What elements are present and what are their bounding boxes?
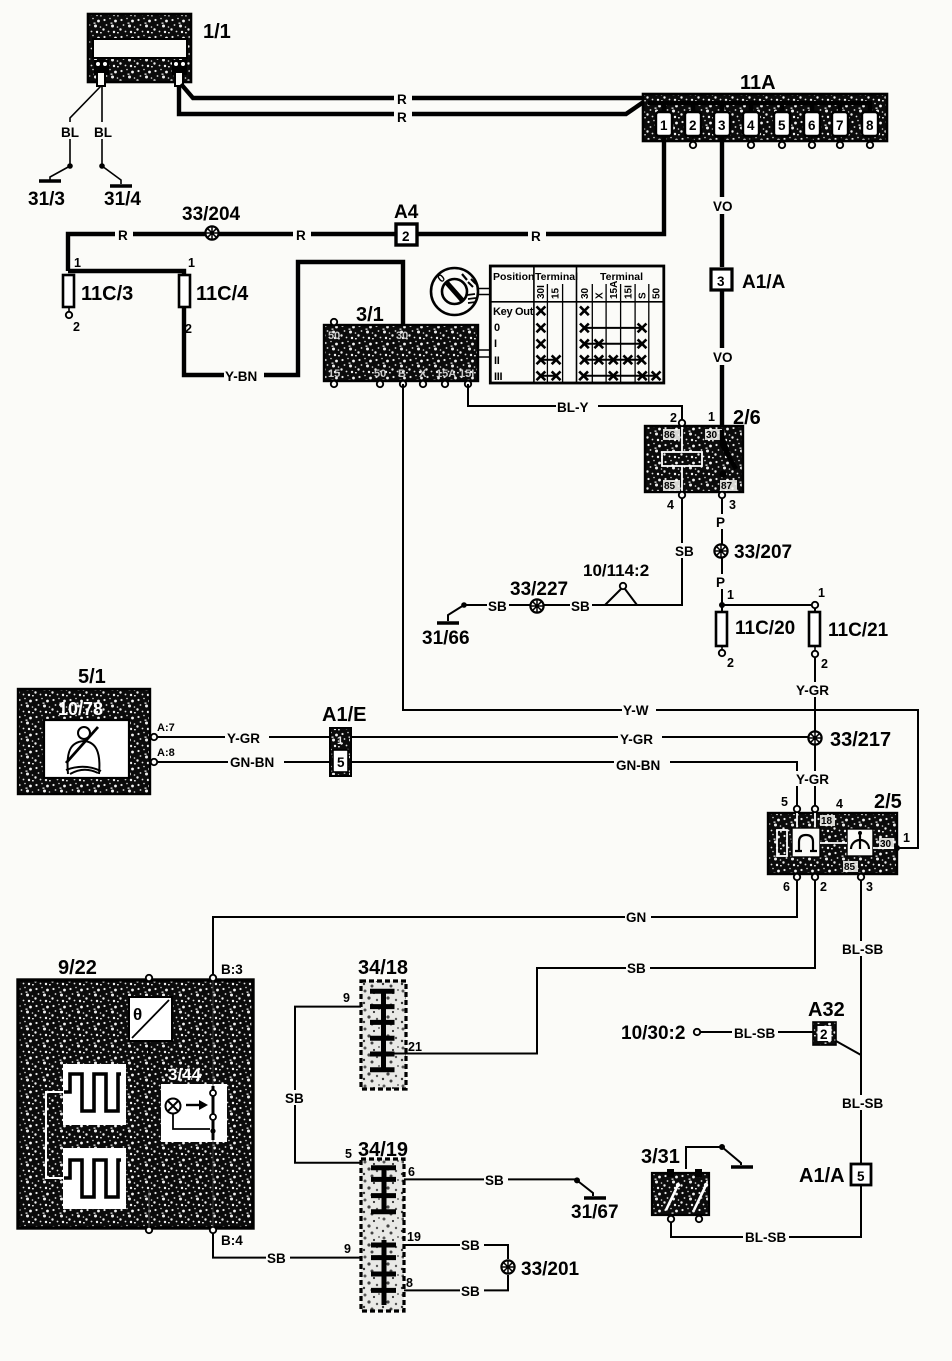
ground 31/4 xyxy=(104,186,141,210)
wire pin 21 xyxy=(394,1040,537,1054)
splice 33/217 xyxy=(808,729,891,751)
svg-text:A1/A: A1/A xyxy=(799,1165,845,1187)
temperature sensor theta xyxy=(129,997,172,1227)
svg-text:Position: Position xyxy=(493,271,534,283)
warning lamp 3/44 xyxy=(161,1065,227,1142)
wire BL left xyxy=(50,86,101,180)
wire P lower xyxy=(715,558,825,608)
wire link heater elements xyxy=(46,1092,64,1178)
svg-text:11C/20: 11C/20 xyxy=(735,618,795,639)
svg-text:3: 3 xyxy=(718,118,726,133)
ground 31/66 xyxy=(422,602,470,649)
fuse 4 xyxy=(743,103,759,148)
svg-text:R: R xyxy=(397,92,407,107)
svg-text:Terminal: Terminal xyxy=(600,271,643,283)
svg-text:3: 3 xyxy=(866,880,873,894)
svg-text:S: S xyxy=(638,292,649,299)
svg-text:SB: SB xyxy=(461,1238,480,1253)
wire BL-SB from 2/5 pin 3 xyxy=(840,880,886,1163)
ground 31/3 xyxy=(28,181,65,210)
key switch symbol xyxy=(431,268,490,315)
svg-text:VO: VO xyxy=(713,199,733,214)
svg-text:3/31: 3/31 xyxy=(641,1146,680,1168)
svg-text:10/114:2: 10/114:2 xyxy=(583,561,649,580)
svg-text:11A: 11A xyxy=(740,72,776,94)
svg-text:P: P xyxy=(716,575,725,590)
heater element upper xyxy=(63,1064,126,1125)
svg-text:BL-SB: BL-SB xyxy=(734,1026,775,1041)
node 10/114:2 xyxy=(583,561,649,605)
svg-text:5: 5 xyxy=(857,1169,865,1184)
svg-text:5/1: 5/1 xyxy=(78,666,106,688)
svg-text:4: 4 xyxy=(667,498,674,512)
svg-text:11C/3: 11C/3 xyxy=(81,283,133,305)
svg-text:1: 1 xyxy=(727,588,734,602)
fuse 6 xyxy=(804,103,820,148)
svg-text:SB: SB xyxy=(488,599,507,614)
svg-text:1/1: 1/1 xyxy=(203,21,231,43)
ground 31/67 xyxy=(571,1198,619,1223)
wire R battery to fusebox (two runs) xyxy=(179,84,646,125)
wire Y-W xyxy=(403,384,918,848)
svg-text:86: 86 xyxy=(664,430,676,441)
svg-text:30: 30 xyxy=(706,430,718,441)
svg-text:1: 1 xyxy=(818,586,825,600)
node 10/30:2 xyxy=(621,1023,813,1044)
wire SB B:4 to 34/19 pin 9 xyxy=(213,1233,361,1266)
wire Y-GR horizontal xyxy=(157,730,810,747)
svg-text:15: 15 xyxy=(551,287,562,299)
wire SB pin 19 to splice xyxy=(404,1230,508,1259)
svg-text:30I: 30I xyxy=(536,285,547,299)
fuse 11C/4 xyxy=(179,275,249,336)
svg-text:1: 1 xyxy=(188,256,195,270)
svg-text:SB: SB xyxy=(675,544,694,559)
svg-text:33/204: 33/204 xyxy=(182,204,241,225)
connector 34/19 xyxy=(358,1139,408,1311)
svg-text:85: 85 xyxy=(844,862,856,873)
relay 2/6 xyxy=(645,407,761,512)
svg-text:GN: GN xyxy=(626,910,646,925)
svg-text:1: 1 xyxy=(660,118,668,133)
svg-text:SB: SB xyxy=(485,1173,504,1188)
wire SB from 2/5 pin 2 xyxy=(404,880,815,1054)
svg-text:0: 0 xyxy=(494,322,500,334)
battery 1/1 xyxy=(88,14,231,86)
control unit 9/22 xyxy=(18,957,253,1248)
svg-text:B: B xyxy=(398,368,406,380)
svg-text:31/3: 31/3 xyxy=(28,189,65,210)
wire SB pin 6 to ground 31/67 xyxy=(404,1165,593,1196)
wire Y-BN xyxy=(184,262,403,384)
svg-text:3: 3 xyxy=(729,498,736,512)
svg-text:15: 15 xyxy=(328,368,340,380)
svg-text:8: 8 xyxy=(406,1276,413,1290)
svg-text:A:7: A:7 xyxy=(157,722,175,734)
svg-text:2: 2 xyxy=(820,1027,828,1042)
wire BL-SB to 3/31 xyxy=(671,1185,861,1245)
svg-text:A1/E: A1/E xyxy=(322,704,366,726)
svg-text:6: 6 xyxy=(808,118,816,133)
svg-text:III: III xyxy=(494,371,503,383)
svg-text:GN-BN: GN-BN xyxy=(616,758,660,773)
wire VO to 2/6 xyxy=(712,290,739,430)
svg-text:31/67: 31/67 xyxy=(571,1202,619,1223)
svg-text:87: 87 xyxy=(721,481,733,492)
fuse 5 xyxy=(774,103,790,148)
svg-text:Y-W: Y-W xyxy=(623,703,649,718)
svg-text:BL: BL xyxy=(61,125,79,140)
svg-text:2: 2 xyxy=(727,656,734,670)
svg-text:2: 2 xyxy=(689,118,697,133)
wire GN-BN horizontal xyxy=(157,754,797,806)
svg-text:SB: SB xyxy=(461,1284,480,1299)
switch wire to ground xyxy=(686,1144,753,1169)
wire Y-GR to 2/5 xyxy=(794,745,838,806)
svg-text:1: 1 xyxy=(903,831,910,845)
svg-text:Y-GR: Y-GR xyxy=(620,732,653,747)
svg-text:33/227: 33/227 xyxy=(510,579,568,600)
svg-text:9: 9 xyxy=(343,991,350,1005)
ignition switch 3/1 xyxy=(324,304,490,387)
svg-text:VO: VO xyxy=(713,350,733,365)
switch 3/31 xyxy=(641,1146,709,1222)
connector A1/E pin 5 xyxy=(322,704,366,776)
svg-text:6: 6 xyxy=(783,880,790,894)
splice 33/227 xyxy=(510,579,568,613)
svg-text:4: 4 xyxy=(836,797,843,811)
svg-text:15A: 15A xyxy=(609,281,620,299)
svg-text:Y-BN: Y-BN xyxy=(225,369,257,384)
svg-text:5: 5 xyxy=(345,1147,352,1161)
fuse 11C/21 xyxy=(809,608,889,671)
svg-text:Y-GR: Y-GR xyxy=(227,731,260,746)
seat belt sensor 5/1 xyxy=(18,666,175,794)
fuse 3 xyxy=(714,103,730,136)
svg-text:1: 1 xyxy=(74,256,81,270)
svg-text:9/22: 9/22 xyxy=(58,957,97,979)
svg-text:21: 21 xyxy=(408,1040,422,1054)
svg-text:4: 4 xyxy=(747,118,755,133)
svg-text:3: 3 xyxy=(717,274,725,289)
svg-text:15A: 15A xyxy=(436,368,456,380)
svg-text:8: 8 xyxy=(866,118,874,133)
svg-text:Terminal: Terminal xyxy=(535,271,578,283)
wire link 11C/3 - 11C/4 xyxy=(68,256,195,276)
svg-text:6: 6 xyxy=(408,1165,415,1179)
connector A1/A pin 3 xyxy=(711,269,786,293)
svg-text:R: R xyxy=(296,228,306,243)
svg-text:SB: SB xyxy=(267,1251,286,1266)
svg-text:1: 1 xyxy=(337,735,343,747)
svg-text:B:3: B:3 xyxy=(221,962,243,977)
wire Y-GR from 11C/21 xyxy=(794,657,838,733)
fuse 2 xyxy=(685,103,701,148)
svg-text:19: 19 xyxy=(407,1230,421,1244)
svg-text:2: 2 xyxy=(73,320,80,334)
svg-text:31/4: 31/4 xyxy=(104,189,141,210)
wire SB pin 8 to splice xyxy=(404,1275,508,1299)
svg-text:A4: A4 xyxy=(394,202,419,223)
svg-text:50: 50 xyxy=(328,330,340,342)
svg-text:50: 50 xyxy=(374,368,386,380)
svg-text:SB: SB xyxy=(285,1091,304,1106)
splice 33/204 xyxy=(182,204,241,240)
svg-text:Y-GR: Y-GR xyxy=(796,683,829,698)
svg-text:9: 9 xyxy=(344,1242,351,1256)
svg-text:11C/21: 11C/21 xyxy=(828,620,889,641)
svg-text:BL-SB: BL-SB xyxy=(842,1096,883,1111)
fuse 11C/3 xyxy=(63,275,133,334)
svg-text:Y-GR: Y-GR xyxy=(796,772,829,787)
svg-text:BL-SB: BL-SB xyxy=(842,942,883,957)
svg-text:X: X xyxy=(419,368,427,380)
wire GN xyxy=(213,880,797,974)
svg-text:3/44: 3/44 xyxy=(168,1065,202,1084)
fuse 11C/20 xyxy=(716,605,795,670)
svg-text:X: X xyxy=(595,292,606,299)
svg-text:A:8: A:8 xyxy=(157,747,175,759)
svg-text:II: II xyxy=(494,355,500,367)
svg-text:SB: SB xyxy=(627,961,646,976)
fusebox 11A xyxy=(643,72,887,141)
wire SB 34/18 pin 9 down to 34/19 pin 5 xyxy=(284,991,361,1163)
wire SB from 2/6 pin 4 xyxy=(464,498,696,614)
svg-text:2: 2 xyxy=(402,229,410,244)
svg-text:5: 5 xyxy=(781,795,788,809)
svg-text:R: R xyxy=(531,229,541,244)
svg-text:B:4: B:4 xyxy=(221,1233,243,1248)
splice 33/207 xyxy=(714,542,792,563)
connector A4 pin 2 xyxy=(394,202,419,245)
svg-text:10/30:2: 10/30:2 xyxy=(621,1023,685,1044)
svg-text:BL: BL xyxy=(94,125,112,140)
wire B:3 to B:4 inside xyxy=(212,981,214,1227)
svg-text:5: 5 xyxy=(337,755,345,770)
svg-text:34/18: 34/18 xyxy=(358,957,408,979)
wire R fuse1 to 11C fuses xyxy=(68,136,664,271)
svg-text:2/5: 2/5 xyxy=(874,791,902,813)
connector A1/A pin 5 xyxy=(799,1164,871,1187)
svg-text:A1/A: A1/A xyxy=(742,272,786,293)
svg-text:A32: A32 xyxy=(808,999,845,1021)
wire BL-Y xyxy=(468,384,682,420)
svg-text:2: 2 xyxy=(670,411,677,425)
svg-text:30: 30 xyxy=(880,839,892,850)
svg-text:85: 85 xyxy=(664,481,676,492)
svg-text:2: 2 xyxy=(820,880,827,894)
svg-text:10/78: 10/78 xyxy=(58,699,103,719)
svg-text:R: R xyxy=(397,110,407,125)
heater element lower xyxy=(63,1148,126,1209)
relay 2/5 xyxy=(768,791,918,894)
position table xyxy=(490,266,664,383)
svg-text:R: R xyxy=(118,228,128,243)
svg-text:P: P xyxy=(716,515,725,530)
fuse 7 xyxy=(832,103,848,148)
svg-text:7: 7 xyxy=(836,118,844,133)
svg-text:BL-Y: BL-Y xyxy=(557,400,589,415)
svg-text:5: 5 xyxy=(778,118,786,133)
svg-text:15I: 15I xyxy=(623,285,634,299)
fuse 8 xyxy=(862,103,878,148)
svg-text:30: 30 xyxy=(580,287,591,299)
wire BL right xyxy=(93,86,121,184)
svg-text:I: I xyxy=(494,338,497,350)
svg-text:18: 18 xyxy=(821,816,833,827)
svg-text:15I: 15I xyxy=(459,368,474,380)
wire P upper xyxy=(715,498,729,544)
svg-text:GN-BN: GN-BN xyxy=(230,755,274,770)
wire VO fuse3 to relay xyxy=(712,136,739,267)
svg-text:SB: SB xyxy=(571,599,590,614)
svg-text:33/201: 33/201 xyxy=(521,1259,580,1280)
svg-text:33/217: 33/217 xyxy=(830,729,891,751)
svg-text:BL-SB: BL-SB xyxy=(745,1230,786,1245)
connector A32 pin 2 xyxy=(808,999,861,1055)
svg-text:θ: θ xyxy=(133,1005,142,1024)
connector 34/18 xyxy=(358,957,408,1089)
svg-text:31/66: 31/66 xyxy=(422,628,470,649)
svg-text:33/207: 33/207 xyxy=(734,542,792,563)
svg-text:2: 2 xyxy=(821,657,828,671)
splice 33/201 xyxy=(501,1259,579,1280)
svg-text:1: 1 xyxy=(708,410,715,424)
fuse 1 xyxy=(656,103,672,136)
svg-text:30: 30 xyxy=(396,330,408,342)
svg-text:3/1: 3/1 xyxy=(356,304,384,326)
svg-text:Key Out: Key Out xyxy=(493,306,534,318)
svg-text:2/6: 2/6 xyxy=(733,407,761,429)
svg-text:50: 50 xyxy=(652,287,663,299)
svg-text:11C/4: 11C/4 xyxy=(196,283,249,305)
